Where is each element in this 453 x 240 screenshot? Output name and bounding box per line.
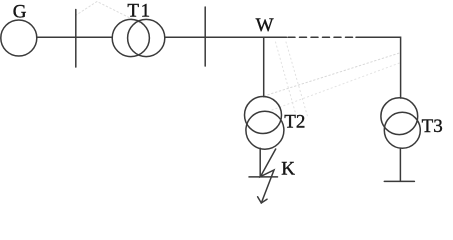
svg-text:W: W xyxy=(256,15,274,36)
faint construction ray T2-top to corner upper xyxy=(264,53,400,96)
transformer T3 secondary coil xyxy=(384,112,420,148)
svg-text:G: G xyxy=(13,2,27,23)
ground bar xyxy=(384,180,414,182)
transformer T2 primary coil xyxy=(245,97,282,134)
wire G to T1 xyxy=(37,36,113,38)
dashed bus wire right of W xyxy=(288,36,354,38)
svg-text:T3: T3 xyxy=(422,116,443,137)
fault K tick bar xyxy=(249,176,278,178)
wire T2 to fault K xyxy=(259,148,261,175)
generator G circle xyxy=(1,20,37,56)
wire T3 to ground xyxy=(399,148,401,181)
transformer T1 primary coil xyxy=(112,19,149,56)
fault K lightning arrow xyxy=(261,149,276,203)
faint construction ray steep 2 xyxy=(286,42,308,118)
wire T1 to node W xyxy=(165,36,287,38)
transformer T3 primary coil xyxy=(381,98,418,135)
faint construction ray top-left xyxy=(76,2,146,26)
wire W drop to T2 xyxy=(263,37,265,96)
faint construction ray steep 1 xyxy=(276,42,297,115)
svg-text:K: K xyxy=(281,158,295,179)
wire dashed-end to corner xyxy=(356,37,401,98)
faint construction ray T2 to corner lower xyxy=(272,63,400,110)
switch cross S2 vertical xyxy=(204,7,206,66)
transformer T1 secondary coil xyxy=(128,19,165,56)
svg-text:T1: T1 xyxy=(127,1,150,22)
fault K arrowhead xyxy=(258,197,267,203)
svg-text:T2: T2 xyxy=(284,111,305,132)
switch cross S1 vertical xyxy=(75,10,77,68)
transformer T2 secondary coil xyxy=(246,111,284,149)
